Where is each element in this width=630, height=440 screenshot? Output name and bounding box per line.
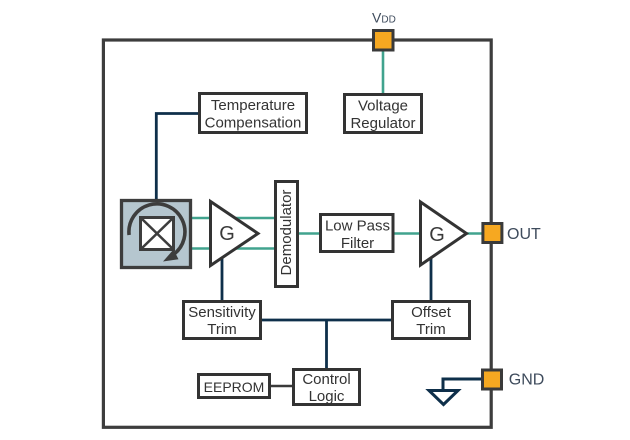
svg-text:Voltage: Voltage	[358, 97, 408, 114]
box Demodulator	[276, 182, 298, 287]
svg-text:GND: GND	[509, 372, 545, 389]
wire Hall to amp U1 to Demodulator (bottom differential)	[190, 247, 277, 250]
svg-text:Compensation: Compensation	[205, 114, 302, 131]
svg-text:Demodulator: Demodulator	[278, 190, 295, 276]
box Control Logic	[294, 370, 360, 406]
svg-text:Control: Control	[302, 371, 350, 388]
svg-text:Sensitivity: Sensitivity	[188, 304, 256, 321]
wire trim bus to Control Logic	[325, 320, 328, 370]
Hall element sensor	[122, 201, 191, 268]
box EEPROM	[199, 375, 270, 398]
svg-text:Filter: Filter	[341, 235, 374, 252]
wire Sensitivity Trim to Offset Trim	[261, 319, 392, 322]
wire amp U2 to OUT pad	[462, 232, 483, 235]
svg-text:G: G	[219, 223, 235, 245]
box Temperature Compensation	[200, 94, 307, 133]
svg-text:Logic: Logic	[309, 388, 345, 405]
wire VDD pad to Voltage Regulator	[382, 45, 385, 95]
pad VDD	[374, 31, 394, 51]
box Offset Trim	[393, 302, 470, 339]
svg-text:VDD: VDD	[372, 9, 396, 25]
box Voltage Regulator	[345, 95, 422, 133]
svg-text:Trim: Trim	[416, 321, 445, 338]
svg-text:OUT: OUT	[507, 226, 541, 243]
svg-text:G: G	[429, 224, 445, 246]
op-amp U1	[211, 202, 259, 266]
wire amp U1 to Sensitivity Trim	[221, 254, 224, 302]
svg-text:Offset: Offset	[411, 304, 452, 321]
chip outline	[103, 40, 491, 427]
wire amp U2 to Offset Trim	[430, 254, 433, 302]
pad OUT	[483, 224, 502, 243]
box Low Pass Filter	[321, 215, 394, 253]
wire EEPROM to Control Logic	[270, 385, 294, 388]
wire Temperature Compensation to Hall element	[156, 114, 200, 203]
pad GND	[483, 370, 502, 389]
svg-text:Low Pass: Low Pass	[325, 217, 390, 234]
ground symbol	[429, 379, 482, 405]
svg-text:Temperature: Temperature	[211, 97, 295, 114]
wire Low Pass Filter to amp U2	[393, 232, 421, 235]
wire Demodulator to Low Pass Filter	[297, 232, 322, 235]
svg-text:Trim: Trim	[207, 321, 236, 338]
op-amp U2	[421, 202, 467, 265]
box Sensitivity Trim	[184, 302, 261, 339]
svg-text:Regulator: Regulator	[350, 115, 415, 132]
svg-text:EEPROM: EEPROM	[204, 379, 265, 395]
wire Hall to amp U1 to Demodulator (top differential)	[190, 217, 277, 220]
